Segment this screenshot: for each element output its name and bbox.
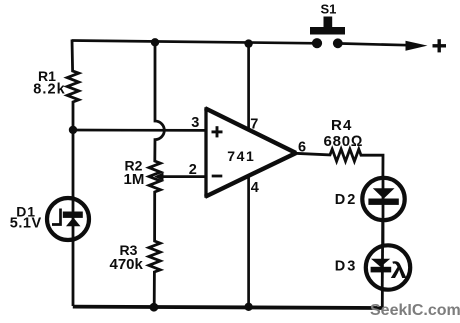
svg-text:R4: R4 [331, 117, 353, 134]
svg-text:8.2k: 8.2k [33, 82, 66, 98]
svg-text:680Ω: 680Ω [324, 133, 364, 150]
svg-text:5.1V: 5.1V [10, 215, 42, 231]
svg-text:S1: S1 [321, 1, 337, 16]
svg-text:6: 6 [298, 139, 306, 155]
svg-text:3: 3 [191, 115, 199, 131]
svg-text:1M: 1M [124, 171, 145, 188]
svg-text:D2: D2 [335, 192, 358, 208]
svg-text:470k: 470k [110, 256, 144, 273]
svg-text:D3: D3 [335, 259, 358, 275]
svg-text:2: 2 [189, 162, 197, 178]
svg-text:λ: λ [391, 257, 408, 283]
svg-text:4: 4 [251, 180, 259, 196]
svg-text:SeekIC.com: SeekIC.com [370, 302, 460, 319]
svg-text:741: 741 [227, 148, 255, 164]
svg-text:7: 7 [250, 116, 258, 132]
